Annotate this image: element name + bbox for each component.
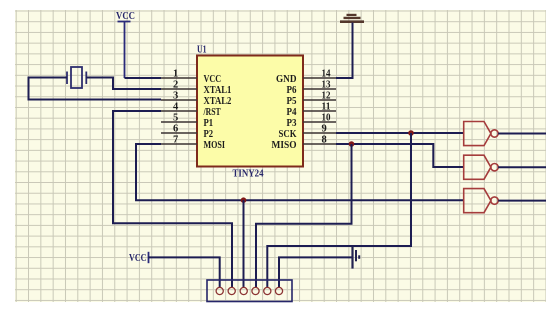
pin 4 /RST — [161, 102, 221, 119]
wire crystal right to pin 2 (XTAL1) — [86, 78, 161, 90]
svg-text:XTAL1: XTAL1 — [204, 85, 232, 96]
wire MISO junction to connector pin 4 — [256, 144, 352, 288]
svg-text:U1: U1 — [197, 45, 207, 56]
connector pin circle 1 — [216, 287, 223, 294]
wire gate U2A output — [498, 133, 546, 135]
connector pin circle 3 — [240, 287, 247, 294]
power symbol VCC (top) — [118, 22, 131, 79]
ground (bottom, rotated earth bars) — [353, 247, 360, 269]
pin 3 XTAL2 — [161, 91, 231, 108]
wire crystal left to pin 3 (XTAL2) — [29, 78, 162, 100]
svg-text:2: 2 — [173, 80, 178, 91]
junction on MOSI wire — [241, 197, 247, 203]
svg-text:/RST: /RST — [203, 107, 221, 118]
svg-text:VCC: VCC — [129, 253, 147, 264]
wire SCK to gate U2A input — [336, 132, 464, 134]
connector pin circle 2 — [228, 287, 235, 294]
wire ground to pin 14 — [336, 23, 353, 79]
svg-text:P3: P3 — [287, 118, 297, 129]
svg-text:4: 4 — [173, 102, 179, 113]
svg-text:12: 12 — [322, 91, 331, 102]
wire MISO to gate U2B input — [336, 144, 464, 167]
inverter gate U2C — [464, 189, 498, 213]
pin 1 VCC — [161, 69, 221, 86]
connector pin circle 4 — [252, 287, 259, 294]
svg-text:GND: GND — [276, 74, 297, 85]
svg-text:P2: P2 — [204, 129, 214, 140]
pin 8 MISO — [272, 135, 337, 152]
wire VCC to pin 1 — [125, 77, 162, 79]
svg-text:P6: P6 — [287, 85, 297, 96]
svg-text:XTAL2: XTAL2 — [204, 96, 232, 107]
svg-text:3: 3 — [173, 91, 178, 102]
pin 13 P6 — [287, 80, 337, 97]
svg-text:MISO: MISO — [272, 140, 297, 151]
inverter gate U2B — [464, 155, 498, 179]
svg-text:5: 5 — [173, 113, 178, 124]
pin 12 P5 — [287, 91, 337, 108]
pin 11 P4 — [287, 102, 337, 119]
svg-text:10: 10 — [322, 113, 331, 124]
svg-text:6: 6 — [173, 124, 178, 135]
svg-text:P1: P1 — [204, 118, 214, 129]
connector pin circle 6 — [275, 287, 282, 294]
junction on SCK wire — [408, 130, 414, 136]
pin 7 MOSI — [161, 135, 225, 152]
svg-text:8: 8 — [322, 135, 327, 146]
svg-text:P5: P5 — [287, 96, 297, 107]
svg-text:14: 14 — [322, 69, 332, 80]
pin 5 P1 — [161, 113, 213, 130]
connector pin circle 5 — [264, 287, 271, 294]
svg-text:P4: P4 — [287, 107, 298, 118]
connector J1 — [207, 280, 292, 302]
svg-text:7: 7 — [173, 135, 178, 146]
wire gate U2C output — [498, 200, 546, 202]
svg-text:1: 1 — [173, 69, 178, 80]
wire gate U2B output — [498, 166, 546, 168]
pin 10 P3 — [287, 113, 337, 130]
wire MOSI junction to connector pin 3 — [243, 200, 245, 288]
wire MOSI to gate U2C input — [136, 144, 464, 200]
pin 9 SCK — [279, 124, 337, 141]
pin 2 XTAL1 — [161, 80, 231, 97]
svg-text:VCC: VCC — [116, 11, 135, 22]
pin 6 P2 — [161, 124, 213, 141]
svg-text:11: 11 — [322, 102, 331, 113]
wire connector pin 6 to ground (bottom) — [279, 257, 353, 288]
svg-text:SCK: SCK — [279, 129, 298, 140]
svg-text:TINY24: TINY24 — [233, 169, 265, 180]
svg-text:9: 9 — [322, 124, 327, 135]
ground (top, earth bars) — [340, 15, 364, 22]
wire VCC to connector pin 1 — [149, 257, 220, 288]
junction on MISO wire — [349, 141, 355, 147]
wire SCK junction to connector pin 5 — [267, 133, 411, 288]
crystal Y1 — [67, 67, 86, 88]
svg-text:VCC: VCC — [204, 74, 222, 85]
pin 14 GND — [276, 69, 336, 86]
inverter gate U2A — [464, 122, 498, 146]
svg-text:MOSI: MOSI — [204, 140, 226, 151]
op-amp U1 body (IC TINY24) — [197, 56, 303, 167]
svg-text:13: 13 — [322, 80, 331, 91]
wire /RST to connector pin 2 — [113, 111, 232, 288]
